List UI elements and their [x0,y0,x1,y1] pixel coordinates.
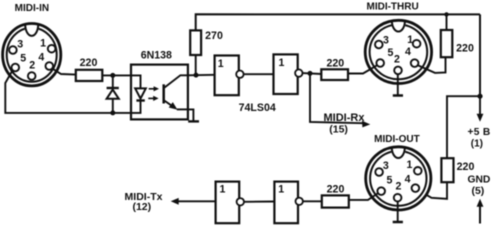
svg-text:MIDI-THRU: MIDI-THRU [366,1,418,12]
svg-text:2: 2 [396,181,402,193]
svg-text:220: 220 [80,57,98,69]
svg-text:5: 5 [386,175,392,187]
inverter DD1.2 [274,54,303,94]
U1 phototransistor [164,75,188,109]
svg-text:4: 4 [405,173,411,185]
node junction diode top [110,73,115,78]
svg-text:74LS04: 74LS04 [239,102,276,114]
resistor R1 220 [76,70,103,81]
wire X2 pin4 to R4 bottom [418,57,446,73]
X3 pin numbers [383,159,413,193]
inverter DD1.4 [274,182,303,224]
resistor R6 220 [322,195,349,207]
node +5V junction [477,94,482,99]
diode VD1 [107,75,119,113]
X2 ground (pin2 shield) [393,75,403,96]
svg-text:(5): (5) [471,185,484,197]
svg-text:270: 270 [205,30,223,42]
wire MIDI-IN pin5 down left and along bottom to optocoupler U1 [5,70,131,113]
svg-text:1: 1 [218,58,224,70]
svg-text:4: 4 [405,46,411,58]
wire +5V rail right side [479,14,481,96]
node MIDI-Rx junction [308,71,313,76]
X1 pin numbers [17,38,46,72]
wire DD1.4 out to R6 [303,200,322,202]
svg-text:5: 5 [20,53,26,65]
inverter DD1.3 [216,182,244,224]
svg-text:220: 220 [457,161,475,173]
U1 internal LED [131,75,146,113]
svg-text:3: 3 [383,160,389,172]
svg-text:5: 5 [387,47,393,59]
svg-text:2: 2 [29,59,35,71]
svg-text:MIDI-IN: MIDI-IN [15,3,49,14]
wire R2 top to +5V top rail [196,14,480,30]
connector X2 MIDI-THRU body [365,20,431,83]
U1 light arrows [148,86,159,101]
optocoupler U1 6N138 box [131,65,188,120]
wire R2 bottom to node A [195,55,197,75]
wire R3 to X2 pin5 [349,65,377,73]
resistor R3 220 [321,69,348,80]
resistor R2 270 [190,30,201,55]
X3 pins [375,167,421,202]
X2 pin numbers [383,34,413,66]
svg-text:220: 220 [327,184,345,196]
wire U1 emitter to ground [188,109,194,120]
svg-text:220: 220 [326,57,344,69]
wire DD1.2 out to R3 [303,72,322,75]
node A junction dot [194,73,199,78]
connector X1 MIDI-IN body [3,24,61,86]
svg-text:220: 220 [456,42,474,54]
svg-text:MIDI-Rx: MIDI-Rx [324,112,366,124]
node R4 top junction [444,12,448,16]
svg-text:3: 3 [383,34,389,46]
svg-text:(15): (15) [329,124,348,136]
resistor R5 220 [441,158,453,182]
svg-text:1: 1 [40,38,46,50]
node MIDI-Rx arrow and labels [324,112,371,135]
svg-text:(12): (12) [132,201,151,213]
node GND labels and arrow [467,174,490,223]
resistor R4 220 [441,30,453,57]
svg-text:MIDI-OUT: MIDI-OUT [374,134,420,145]
ground (U1 emitter) [188,120,199,122]
node MIDI-Tx arrow and labels [125,191,216,213]
svg-text:1: 1 [279,57,285,69]
connector X3 MIDI-OUT body [366,147,431,210]
svg-text:1: 1 [406,159,412,171]
svg-text:GND: GND [467,174,490,185]
svg-text:+5 B: +5 B [467,127,490,138]
node +5V arrow and labels [467,96,490,149]
node junction diode bottom [110,110,115,115]
svg-text:1: 1 [219,183,225,195]
svg-text:3: 3 [17,39,23,51]
wire MIDI-IN pin4 to R1 [52,68,76,74]
wire R6 to X3 pin5 [349,193,379,200]
X1 pins [9,45,55,80]
svg-text:1: 1 [407,34,413,46]
wire R5 bottom to X3 pin4 [419,182,447,199]
X2 pins [375,40,420,74]
wire MIDI-Rx branch [310,73,363,123]
X3 ground (pin2 shield) [393,202,403,223]
wire DD1.1 out to DD1.2 in [244,73,274,75]
wire R1 to optocoupler input [102,74,131,76]
svg-text:1: 1 [278,183,284,195]
svg-text:(1): (1) [471,138,483,149]
svg-text:4: 4 [38,51,44,63]
wire R4 top stub [446,14,448,30]
svg-text:6N138: 6N138 [141,50,172,62]
inverter DD1.1 [215,56,244,96]
wire DD1.3 out to DD1.4 in [244,201,274,203]
wire U1 collector to node A [188,74,215,77]
svg-text:2: 2 [394,54,400,66]
wire rail to R5 [447,96,480,158]
